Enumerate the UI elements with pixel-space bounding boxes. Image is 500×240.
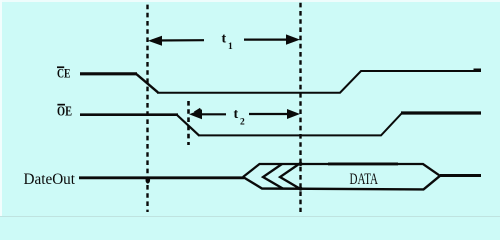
data bus chevron 2 <box>263 164 283 189</box>
DateOut signal line (left) <box>79 176 244 179</box>
data bus outline bottom <box>243 176 440 190</box>
svg-text:t: t <box>222 32 227 47</box>
t1 dimension arrow left line <box>152 39 204 41</box>
vertical dashed line 1 (at CE fall, x=148) <box>146 5 148 212</box>
data bus outline top <box>243 164 440 177</box>
CE signal low segment <box>157 71 481 93</box>
t1 dimension arrow left head <box>148 36 162 46</box>
svg-text:t: t <box>234 107 239 122</box>
svg-text:OE: OE <box>57 104 72 119</box>
svg-text:DateOut: DateOut <box>24 171 76 188</box>
t2 dimension arrow right head <box>287 109 300 119</box>
CE signal right end thick tip <box>474 68 482 71</box>
vertical dashed line 2 (right reference, x=300) <box>299 3 301 212</box>
t2 dimension arrow left line <box>193 113 226 115</box>
t1 dimension arrow right line <box>244 38 295 40</box>
svg-text:DATA: DATA <box>350 170 379 188</box>
OE signal falling edge <box>177 115 199 135</box>
svg-text:1: 1 <box>228 42 233 52</box>
t2 dimension arrow right line <box>249 113 295 115</box>
data bus top edge thick segment <box>328 162 398 165</box>
t1 label <box>222 32 234 52</box>
t1 dimension arrow right head <box>286 34 300 44</box>
junction dot on dashed line 1 at DateOut line <box>146 176 151 183</box>
CE label overline <box>57 66 64 68</box>
bottom edge shading <box>0 216 500 217</box>
left white edge <box>0 0 2 217</box>
OE label overline <box>57 104 65 106</box>
DateOut signal line (right) <box>440 174 481 177</box>
OE signal high segment (right, thick) <box>401 111 481 114</box>
CE signal high segment (left, thick) <box>80 72 137 75</box>
svg-text:2: 2 <box>240 117 245 127</box>
t2 dimension arrow left head <box>189 109 202 119</box>
CE signal falling edge <box>137 74 159 92</box>
t2 arrow head scan artifact <box>195 109 201 113</box>
data bus chevron 3 <box>280 164 300 189</box>
top white edge <box>0 0 500 2</box>
OE signal high segment (left) <box>80 113 178 116</box>
t2 label <box>234 107 246 127</box>
short vertical dashed line (at OE fall, x=188) <box>187 101 190 145</box>
junction dot dashed line 2 and bus bottom <box>299 187 303 191</box>
junction dot dashed line 2 and bus top <box>299 162 303 166</box>
OE signal low segment and rising edge <box>198 113 402 135</box>
svg-text:CE: CE <box>57 66 71 81</box>
